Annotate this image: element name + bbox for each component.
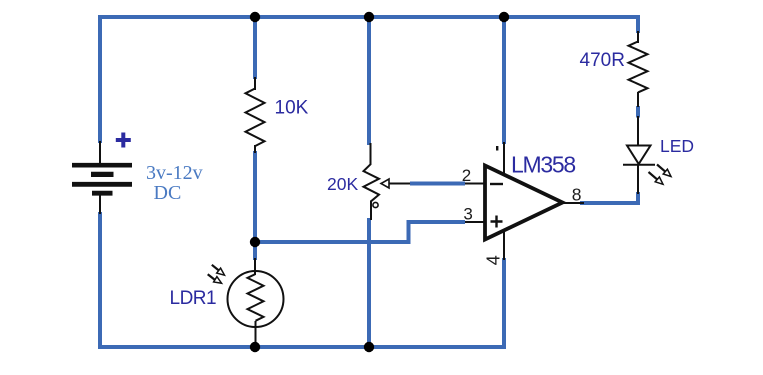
resistor 10K: [246, 89, 265, 147]
svg-text:LED: LED: [660, 136, 694, 156]
svg-text:LM358: LM358: [511, 151, 575, 177]
wire node A to pin 3: [255, 222, 465, 242]
battery plus sign: [116, 133, 131, 148]
LED light arrow 1: [657, 165, 671, 177]
svg-text:LDR1: LDR1: [170, 288, 217, 309]
svg-text:4: 4: [483, 255, 503, 265]
LED light arrow 2: [649, 172, 664, 184]
wire 10K top lead: [254, 77, 256, 90]
wire pot top: [367, 17, 371, 145]
svg-text:10K: 10K: [275, 98, 309, 119]
wire LED bottom lead: [637, 165, 639, 194]
wire pin 2 lead: [410, 183, 484, 185]
pin 8 tick: [496, 146, 498, 151]
pot case terminal circle: [373, 202, 378, 207]
svg-text:8: 8: [572, 184, 582, 204]
wire pot bottom lead: [370, 201, 372, 221]
junction dot top pot: [364, 12, 374, 22]
wire op-amp V+: [502, 17, 506, 144]
LED D1: [627, 146, 651, 165]
svg-text:20K: 20K: [327, 174, 358, 194]
wire battery bottom lead: [99, 194, 101, 214]
potentiometer 20K: [364, 164, 380, 202]
svg-text:2: 2: [462, 166, 471, 185]
wire V+ lead: [503, 142, 505, 176]
svg-text:470R: 470R: [580, 50, 625, 71]
wire pin 4 lead: [503, 228, 505, 260]
wire battery top lead: [99, 141, 101, 164]
wire top rail with left/right drops: [100, 17, 638, 143]
battery B1: [72, 165, 132, 193]
wire pot bottom: [367, 218, 371, 347]
wire 470R top lead: [637, 31, 639, 43]
LDR light arrow 1: [212, 265, 225, 275]
LDR light arrow 2: [208, 274, 222, 283]
junction dot top op-amp: [499, 12, 509, 22]
wire 10K bottom to LDR node: [253, 151, 257, 260]
resistor 470R: [629, 42, 648, 93]
wire pin 2 overlay: [410, 182, 465, 186]
wire 470R bottom lead: [637, 92, 639, 107]
LDR1 photoresistor: [228, 271, 284, 327]
op-amp U1 LM358: [485, 166, 563, 240]
wire 10K top: [253, 17, 257, 79]
junction node A: [250, 237, 260, 247]
svg-text:3: 3: [463, 205, 472, 224]
op-amp minus: [490, 183, 503, 185]
svg-text:3v-12v: 3v-12v: [146, 162, 203, 184]
junction dot bottom LDR: [250, 342, 260, 352]
wire pin 2 overlay blue: [410, 182, 465, 186]
wire 470R to LED gap: [636, 106, 640, 118]
wire pot top lead: [370, 143, 372, 164]
wire bottom rail with battery drop and pin4 riser: [100, 212, 504, 347]
svg-text:DC: DC: [154, 182, 182, 204]
wire output lead: [562, 202, 584, 204]
wire LDR bottom lead: [255, 321, 257, 345]
op-amp plus: [491, 216, 503, 228]
wire pin 3 lead: [465, 221, 484, 223]
wire output to LED: [580, 192, 638, 203]
junction dot top 10K: [250, 12, 260, 22]
wire LDR top lead: [254, 258, 256, 275]
junction dot bottom pot: [364, 342, 374, 352]
pot wiper arrow: [388, 183, 411, 185]
wire LED top lead: [637, 116, 639, 147]
wire 10K bottom lead: [254, 145, 256, 153]
